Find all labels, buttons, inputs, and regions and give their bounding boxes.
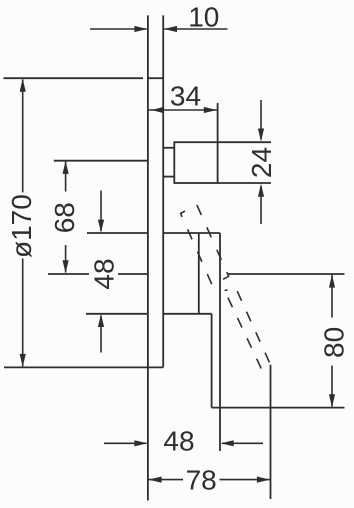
pipe bottom edge + 80-dim lower extension line [212,407,345,409]
valve body step bottom edge [163,313,211,315]
arrowhead dim 68 top [63,161,69,174]
dim 78 right segment [220,479,270,481]
connector step bottom [163,176,174,178]
wall plate right edge [162,15,164,367]
24-dim bottom extension line [218,182,271,184]
dim 80 line lower segment [331,366,333,407]
lever lower section (dashed grip) [225,288,271,368]
svg-text:ø170: ø170 [6,194,37,258]
arrowhead dim 48-left top [98,220,104,233]
80-dim upper extension line [228,273,345,275]
dim 10 left leader [90,28,147,30]
dim 68 line lower segment [65,245,67,273]
dim 80 line upper segment [331,275,333,318]
lever tip extension line [270,365,272,499]
svg-text:78: 78 [186,464,217,495]
dim 48-left upper leader [100,191,102,232]
wall plate bottom edge / ø170 lower extension line [4,366,163,368]
68-dim bottom extension line (right of 48 text) [118,273,148,275]
svg-text:80: 80 [319,327,350,358]
arrowhead dim 24 top [258,129,264,142]
arrowhead dim 24 bottom [258,184,264,197]
dim 78 left segment [148,479,183,481]
dim 48-bottom right leader [222,442,263,444]
ø170 top extension line [4,77,144,79]
svg-text:48: 48 [89,258,120,289]
dim 24 upper leader [260,100,262,140]
wall plate top tick (ø170 upper reference inside plate) [148,77,163,79]
dim 48-left lower leader [100,316,102,353]
dim ø170 line upper segment [22,80,24,193]
arrowhead dim 34 left [152,107,164,113]
arrowhead dim 48-bottom left [134,440,147,446]
arrowhead dim 48-bottom right [221,440,234,446]
wall plate left edge + bottom extension line [147,15,149,500]
arrowhead dim 80 top [329,275,335,288]
dim ø170 line lower segment [22,259,24,367]
pipe left edge [211,314,213,408]
body-top left extension line [87,232,148,234]
arrowhead dim 34 right [204,107,217,113]
valve body right edge + 48-dim extension [219,233,221,451]
svg-text:68: 68 [49,202,80,233]
valve body internal line [198,233,200,314]
34-dim right extension line above knob [217,103,219,142]
dim 68 line upper segment [65,162,67,192]
arrowhead dim 10 left [134,26,147,32]
dim 48-bottom left leader [104,442,147,444]
svg-text:10: 10 [188,1,219,32]
arrowhead dim 78 right [257,477,270,483]
connector step top [163,147,174,149]
arrowhead ø170 bottom [20,354,26,367]
arrowhead ø170 top [20,79,26,92]
valve body top edge [163,232,220,234]
arrowhead dim 80 bottom [329,394,335,407]
24-dim top extension line [218,141,271,143]
svg-text:34: 34 [170,80,201,111]
arrowhead dim 48-left bottom [98,314,104,327]
lever upper section (dashed alternate position) [181,205,229,285]
dim 10 right leader [164,28,227,30]
dim 24 lower leader [260,186,262,224]
body-step left extension line [86,313,148,315]
arrowhead dim 68 bottom [63,260,69,273]
knob (cartridge stem) box [174,142,217,183]
68-dim bottom extension line (left of 48 text) [48,273,89,275]
arrowhead dim 10 right [164,26,177,32]
svg-text:48: 48 [163,426,194,457]
dim 34 line [148,109,217,111]
arrowhead dim 78 left [149,477,162,483]
68-dim top extension line [54,160,148,162]
svg-text:24: 24 [246,147,277,178]
